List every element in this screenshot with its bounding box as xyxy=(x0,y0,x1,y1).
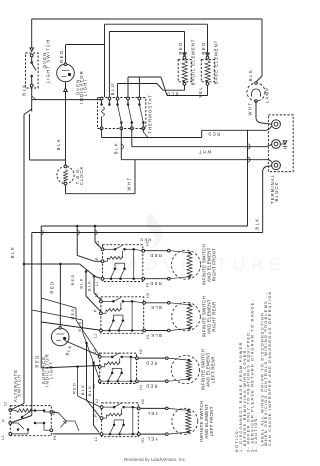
wire main BLK top horizontal xyxy=(32,18,262,20)
infinite switch box LEFT REAR xyxy=(100,353,137,383)
svg-text:RED: RED xyxy=(72,382,77,394)
svg-text:RED: RED xyxy=(59,50,64,63)
svg-text:H2: H2 xyxy=(146,293,150,298)
wire indicator light top to thermostat feed xyxy=(65,45,67,63)
svg-text:RED: RED xyxy=(149,281,161,286)
wire clock stub xyxy=(29,114,31,160)
svg-text:L2: L2 xyxy=(95,399,99,403)
wire unit1 L1 feed xyxy=(24,263,80,265)
svg-text:YEL: YEL xyxy=(146,411,158,416)
svg-text:BROIL ELEMENT: BROIL ELEMENT xyxy=(191,39,196,86)
wire thermostat T4 T5 to bake return xyxy=(127,77,129,97)
wires to element RED xyxy=(145,250,168,252)
svg-text:SWITCH: SWITCH xyxy=(17,374,22,397)
wire thermostat T3 to broil return xyxy=(117,84,119,98)
svg-text:H2: H2 xyxy=(139,349,143,354)
wire trio2 BLK to unit4 L1 join xyxy=(92,361,95,364)
terminal marker below indicator light xyxy=(64,88,68,92)
svg-text:L2: L2 xyxy=(94,293,98,297)
switch internals xyxy=(101,356,112,358)
svg-text:BLK: BLK xyxy=(77,320,82,331)
infinite switch box RIGHT FRONT xyxy=(103,245,143,282)
alternate switch terminals xyxy=(9,409,12,412)
switch internals xyxy=(104,248,115,250)
svg-text:BLK: BLK xyxy=(22,83,27,95)
svg-text:RIGHT REAR: RIGHT REAR xyxy=(211,301,216,332)
wire RED to terminal block xyxy=(101,128,103,137)
svg-text:BLK: BLK xyxy=(248,69,253,81)
svg-text:RED: RED xyxy=(50,280,55,293)
svg-text:BLK: BLK xyxy=(114,142,119,154)
wire bus B3 to unit3 P xyxy=(41,366,99,369)
svg-text:H2: H2 xyxy=(141,399,145,404)
wire alternate H2 arrow xyxy=(53,412,59,413)
watermark xyxy=(95,213,287,274)
thermostat top terminals xyxy=(100,97,103,100)
svg-text:RED: RED xyxy=(145,361,157,366)
svg-text:LAMP: LAMP xyxy=(265,87,270,103)
T.O.D. clock xyxy=(57,166,74,183)
wire BLK thermostat to terminal block xyxy=(120,128,122,159)
svg-text:WHT: WHT xyxy=(248,101,253,115)
svg-text:CAN CAUSE IMPROPER AND DANGERO: CAN CAUSE IMPROPER AND DANGEROUS OPERATI… xyxy=(268,288,272,446)
svg-text:LEADVENTURE: LEADVENTURE xyxy=(95,255,287,274)
svg-text:P: P xyxy=(2,419,6,422)
oven lamp xyxy=(247,83,265,101)
oven indicator light xyxy=(57,64,75,82)
wire jog BLK main down-left xyxy=(24,109,32,115)
element LEFT REAR xyxy=(166,357,169,360)
svg-text:L2: L2 xyxy=(93,349,97,353)
wire bus B3 xyxy=(40,226,42,368)
svg-text:BLK: BLK xyxy=(150,305,162,310)
wire trio1 BLK to unit2 L2 xyxy=(93,275,96,278)
wire WHT lamp xyxy=(255,101,257,118)
svg-text:H1: H1 xyxy=(146,334,150,339)
svg-text:WHT: WHT xyxy=(127,176,132,190)
svg-text:LIGHT: LIGHT xyxy=(83,78,88,96)
wire bus RED to unit1 L2 xyxy=(94,226,96,242)
switch terminals xyxy=(98,356,101,359)
wire drop to broil element xyxy=(184,32,186,55)
oven light switch box xyxy=(26,53,39,88)
wire RED gap2 to unit3 L2 xyxy=(41,298,76,308)
svg-text:4- CAUTION:: 4- CAUTION: xyxy=(254,415,258,452)
wire bus B2 to alternate switch P xyxy=(31,233,33,416)
svg-text:BLK: BLK xyxy=(255,217,260,229)
svg-text:LEFT FRONT: LEFT FRONT xyxy=(209,406,214,436)
wire surface light to unit3 L2 xyxy=(65,341,100,356)
svg-text:BLU: BLU xyxy=(110,83,115,96)
svg-text:L1: L1 xyxy=(92,384,96,388)
switch internals xyxy=(102,300,113,302)
terminal block terminal 1 xyxy=(272,120,281,129)
wire BLK tap to thermostat T1 xyxy=(32,99,102,101)
wire thermostat feed from top wire 1 xyxy=(104,24,106,97)
svg-text:RED: RED xyxy=(35,354,40,367)
wire trio1 BLK to unit2 P xyxy=(85,270,88,273)
wires to element YEL xyxy=(140,407,166,409)
wire BLK to oven lamp xyxy=(261,19,263,76)
svg-text:L1: L1 xyxy=(95,282,99,286)
svg-text:BLK: BLK xyxy=(10,246,15,258)
terminal block box xyxy=(268,115,293,172)
broil element box xyxy=(178,60,191,82)
wire BLK drop to oven light switch xyxy=(31,19,33,48)
svg-text:YEL: YEL xyxy=(146,437,158,442)
svg-text:BLK: BLK xyxy=(56,138,61,150)
wire clock bottom to WHT riser xyxy=(65,185,67,194)
switch terminals xyxy=(100,406,103,409)
svg-text:L1: L1 xyxy=(1,435,5,439)
svg-text:P: P xyxy=(93,309,97,312)
svg-text:BLOCK: BLOCK xyxy=(274,182,279,202)
element RIGHT FRONT xyxy=(168,249,171,252)
infinite switch box LEFT FRONT xyxy=(102,403,139,437)
svg-text:H1: H1 xyxy=(53,435,57,440)
thermostat box xyxy=(98,98,146,129)
element RIGHT REAR xyxy=(168,302,171,305)
wire bus to unit1 P xyxy=(76,226,78,255)
switch internals xyxy=(103,406,114,408)
wires to element BLK xyxy=(146,302,169,304)
svg-text:BLU: BLU xyxy=(166,92,179,97)
surface indicator light xyxy=(51,328,69,346)
svg-text:BLK: BLK xyxy=(80,384,85,395)
wire indicator light down to clock xyxy=(65,92,67,167)
svg-text:Rendered by LeadVenture, Inc.: Rendered by LeadVenture, Inc. xyxy=(124,457,186,462)
wire BLK to unit3 L1 xyxy=(32,310,83,320)
wire WHT to terminal block xyxy=(131,128,133,146)
svg-text:RED: RED xyxy=(207,131,220,136)
svg-text:BLK: BLK xyxy=(150,333,162,338)
oven light switch contacts xyxy=(30,54,33,57)
svg-text:THERMOSTAT: THERMOSTAT xyxy=(148,94,153,134)
svg-text:L1: L1 xyxy=(93,333,97,337)
svg-text:L1: L1 xyxy=(94,437,98,441)
wire long BLK lower xyxy=(32,232,263,234)
svg-text:L2: L2 xyxy=(4,402,8,406)
svg-text:CLOCK: CLOCK xyxy=(79,166,84,186)
wire BLK below switch xyxy=(31,87,33,112)
svg-text:BLK: BLK xyxy=(87,280,92,291)
svg-text:P: P xyxy=(92,363,96,366)
wire trio2 BLK to unit4 P xyxy=(85,342,88,345)
svg-text:LIGHT SWITCH: LIGHT SWITCH xyxy=(46,39,51,84)
svg-text:LEFT REAR: LEFT REAR xyxy=(211,356,216,383)
bake element coil xyxy=(206,56,209,59)
ground symbol xyxy=(280,143,284,145)
wire drop to bake element xyxy=(207,24,209,54)
svg-text:L2: L2 xyxy=(96,241,100,245)
terminal block terminal 2 xyxy=(272,140,281,149)
svg-text:RED: RED xyxy=(145,384,157,389)
broil element coil xyxy=(183,56,186,59)
element LEFT FRONT xyxy=(166,407,169,410)
svg-text:RED: RED xyxy=(70,273,75,285)
svg-text:H2: H2 xyxy=(145,241,149,246)
switch terminals xyxy=(100,300,103,303)
terminal block terminal 3 xyxy=(272,161,281,170)
wire bus B3 to unit2 L1 xyxy=(41,322,102,331)
svg-text:H1: H1 xyxy=(141,438,145,443)
bake element box xyxy=(201,60,214,82)
svg-text:BLK: BLK xyxy=(79,277,84,288)
thermostat bottom terminals xyxy=(100,127,103,130)
wire trio2 RED to unit4 L2 xyxy=(76,365,79,368)
wire long RED lower xyxy=(41,225,247,227)
wire bus B4 surface light xyxy=(59,264,61,328)
svg-text:WHT: WHT xyxy=(197,150,211,155)
terminal marker above oven light switch xyxy=(30,48,34,52)
svg-text:BAKE ELEMENT: BAKE ELEMENT xyxy=(214,40,219,84)
alternate switch internals xyxy=(16,409,31,413)
wire bus BLK to alternate L2 xyxy=(10,403,24,410)
svg-text:H1: H1 xyxy=(145,282,149,287)
infinite switch box RIGHT REAR xyxy=(101,297,144,334)
wire alternate H1 to unit4 L1 xyxy=(53,433,102,435)
switch terminals xyxy=(101,248,104,251)
thermostat internal contacts xyxy=(100,103,103,106)
svg-text:H1: H1 xyxy=(139,385,143,390)
alternate switch box xyxy=(10,406,51,436)
svg-text:LIGHT: LIGHT xyxy=(48,361,53,379)
wires to element RED xyxy=(138,357,166,359)
wire thermostat feed from top wire 2 xyxy=(108,32,110,98)
svg-text:RED: RED xyxy=(178,41,183,54)
svg-text:YEL: YEL xyxy=(198,86,203,98)
svg-text:RED: RED xyxy=(201,41,206,54)
